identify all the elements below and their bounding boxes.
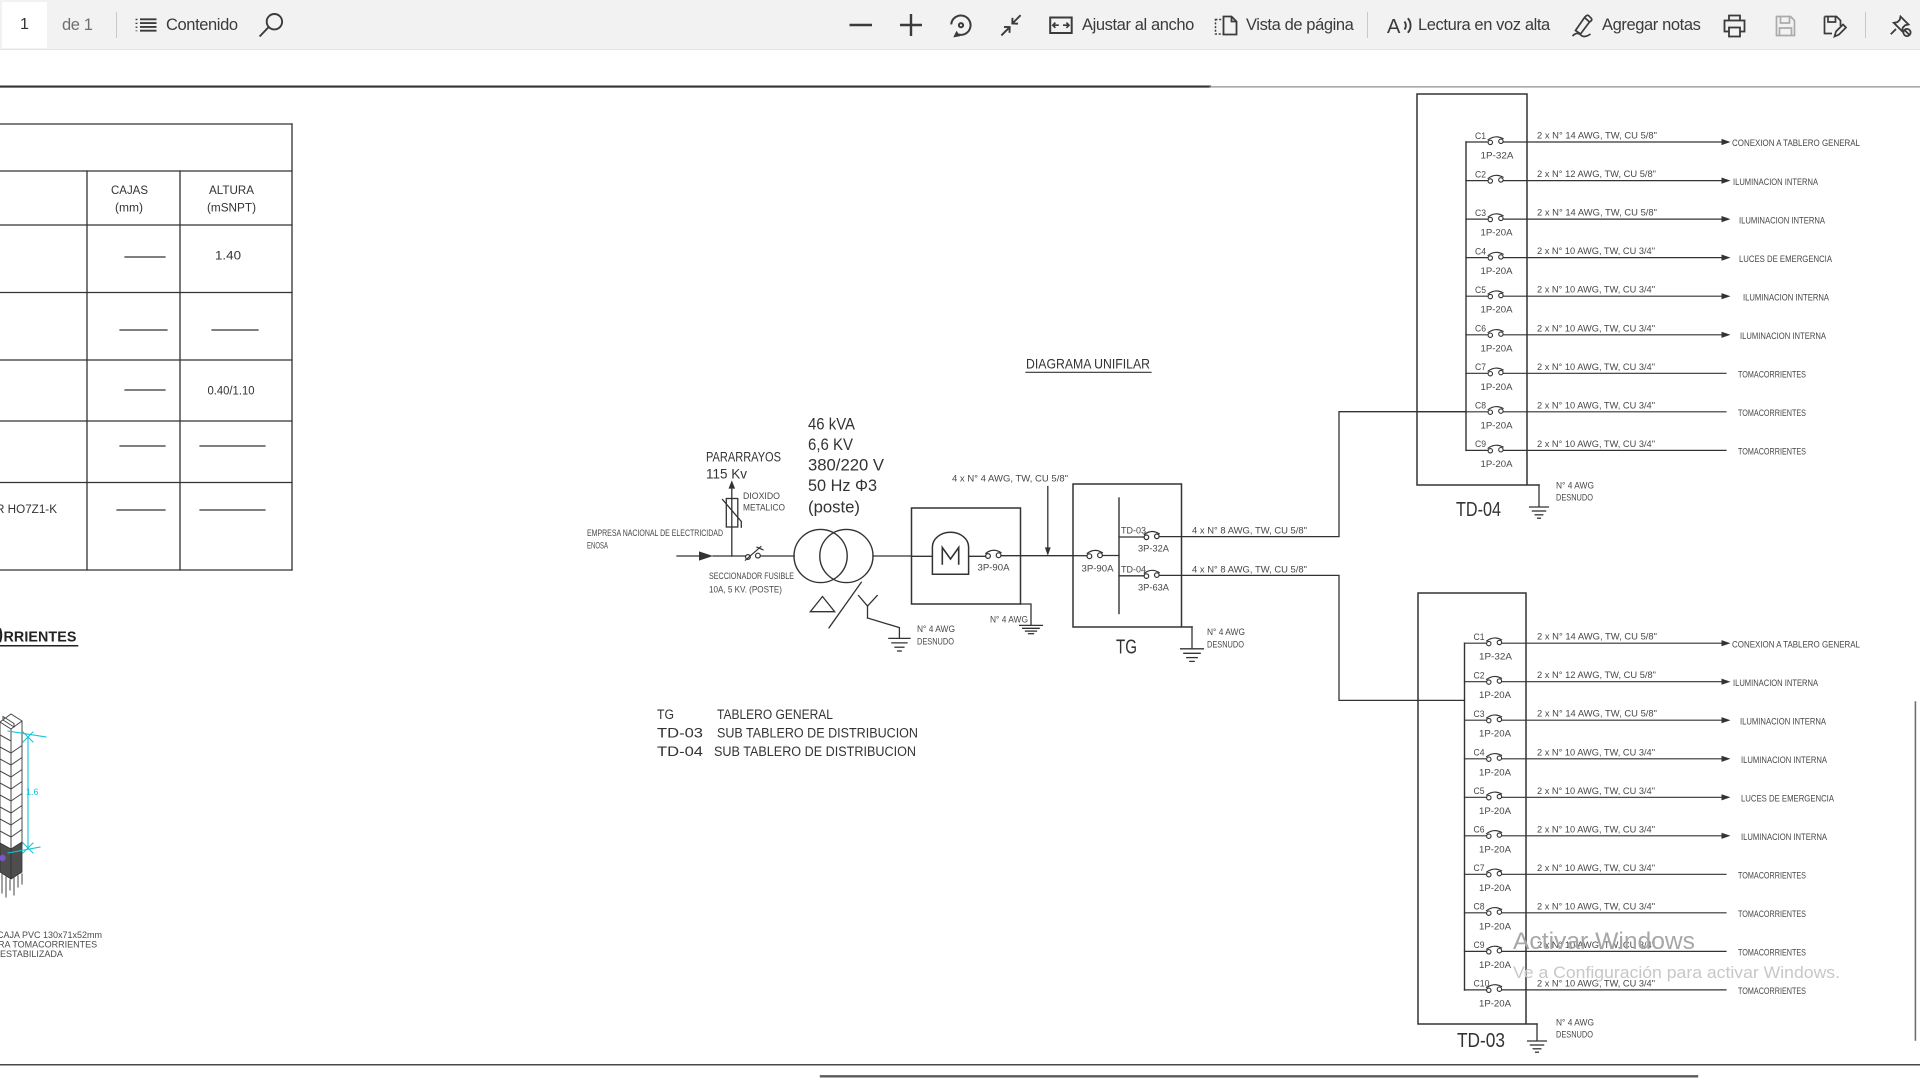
svg-text:(mm): (mm) (115, 203, 143, 215)
svg-text:2 x N° 10 AWG, TW, CU 3/4": 2 x N° 10 AWG, TW, CU 3/4" (1537, 901, 1655, 912)
enclosure: panel TD-03 (1418, 593, 1537, 1024)
svg-text:1P-20A: 1P-20A (1479, 998, 1512, 1009)
service arrow (699, 551, 713, 560)
svg-text:C3: C3 (1474, 709, 1485, 720)
branch circuit C9: breaker 1P-20A (1466, 439, 1806, 470)
wire (969, 555, 986, 557)
legend: TG / TD-03 / TD-04 (657, 707, 918, 759)
svg-text:TG: TG (1116, 637, 1137, 659)
svg-text:1.6: 1.6 (26, 787, 39, 797)
svg-text:3P-90A: 3P-90A (978, 563, 1011, 574)
table dash marks (117, 257, 265, 510)
svg-text:C5: C5 (1475, 285, 1486, 296)
toolbar icon: page view (1214, 15, 1240, 36)
fuse disconnect SECCIONADOR FUSIBLE (745, 547, 763, 561)
svg-text:1P-20A: 1P-20A (1479, 844, 1512, 855)
svg-text:2 x N° 14 AWG, TW, CU 5/8": 2 x N° 14 AWG, TW, CU 5/8" (1537, 208, 1657, 219)
label EMPRESA NACIONAL DE ELECTRICIDAD ENOSA (587, 528, 723, 552)
wire: arrester tap (731, 488, 733, 557)
branch circuit C6: breaker 1P-20A (1465, 824, 1828, 855)
toolbar icon: print (1723, 14, 1746, 38)
wire (912, 555, 933, 557)
wire: TG to TD-04 panel riser (1159, 412, 1466, 537)
branch circuit C7: breaker 1P-20A (1466, 362, 1806, 393)
TG internal bus (1118, 498, 1120, 614)
feeder drop arrow (1045, 487, 1051, 556)
svg-text:2 x N° 10 AWG, TW, CU 3/4": 2 x N° 10 AWG, TW, CU 3/4" (1537, 400, 1655, 411)
svg-text:1P-32A: 1P-32A (1479, 652, 1513, 663)
svg-text:C4: C4 (1474, 748, 1485, 759)
table: equipment schedule (partial, clipped at left) (0, 124, 292, 570)
heading TOMACORRIENTES (clipped) (0, 629, 78, 646)
branch circuit C2: breaker 1P-20A (1465, 670, 1819, 701)
svg-text:2 x N° 14 AWG, TW, CU 5/8": 2 x N° 14 AWG, TW, CU 5/8" (1537, 709, 1657, 720)
svg-text:DESNUDO: DESNUDO (1556, 1030, 1593, 1041)
svg-text:3P-63A: 3P-63A (1138, 583, 1170, 594)
svg-text:C9: C9 (1475, 439, 1486, 450)
svg-text:1.40: 1.40 (215, 251, 241, 263)
svg-text:1P-20A: 1P-20A (1479, 729, 1512, 740)
surge arrester PARARRAYOS (dioxido metalico) (723, 499, 742, 528)
label N4 AWG DESNUDO (TD-03 ground) (1556, 1018, 1594, 1041)
svg-text:1P-20A: 1P-20A (1479, 883, 1512, 894)
svg-text:TD-04: TD-04 (1121, 564, 1146, 575)
toolbar icon: search (256, 12, 284, 39)
svg-text:1P-20A: 1P-20A (1481, 305, 1514, 316)
svg-text:4 x N° 8 AWG, TW, CU 5/8": 4 x N° 8 AWG, TW, CU 5/8" (1192, 526, 1307, 537)
svg-text:PARARRAYOS: PARARRAYOS (706, 450, 781, 465)
svg-text:TD-03: TD-03 (1121, 526, 1146, 537)
svg-text:ENOSA: ENOSA (587, 541, 608, 552)
svg-text:ILUMINACION INTERNA: ILUMINACION INTERNA (1741, 755, 1828, 766)
delta winding symbol (810, 597, 834, 612)
svg-text:C10: C10 (1474, 979, 1490, 990)
table header CAJAS (mm) (0, 185, 256, 516)
wire (1102, 555, 1119, 557)
enclosure: panel TD-04 (1417, 94, 1539, 485)
svg-text:TOMACORRIENTES: TOMACORRIENTES (1738, 909, 1806, 920)
svg-text:C9: C9 (1474, 940, 1485, 951)
svg-text:ILUMINACION INTERNA: ILUMINACION INTERNA (1733, 177, 1819, 188)
label PARARRAYOS 115 Kv (706, 450, 781, 482)
svg-text:C8: C8 (1475, 401, 1486, 412)
toolbar icon: pin (1888, 13, 1912, 38)
svg-text:2 x N° 14 AWG, TW, CU 5/8": 2 x N° 14 AWG, TW, CU 5/8" (1537, 131, 1657, 142)
svg-text:2 x N° 10 AWG, TW, CU 3/4": 2 x N° 10 AWG, TW, CU 3/4" (1537, 747, 1655, 758)
toolbar icon: fit to page (collapse arrows) (1000, 14, 1023, 37)
svg-text:TD-04: TD-04 (1456, 499, 1501, 521)
svg-text:1P-20A: 1P-20A (1481, 266, 1514, 277)
svg-text:1P-20A: 1P-20A (1479, 806, 1512, 817)
svg-text:DESNUDO: DESNUDO (1556, 493, 1593, 504)
breaker TD-04 3P-63A (1119, 564, 1170, 593)
svg-text:3P-90A: 3P-90A (1082, 564, 1115, 575)
enclosure: motor starter box (912, 508, 1021, 604)
svg-text:C6: C6 (1475, 324, 1486, 335)
sheet top frame line (0, 86, 1920, 88)
TD-03 internal bus (1464, 643, 1466, 990)
branch circuit C6: breaker 1P-20A (1466, 323, 1827, 354)
ground: TG (1181, 627, 1204, 661)
label DIOXIDO METALICO (743, 491, 785, 514)
svg-text:TD-03: TD-03 (1457, 1030, 1505, 1052)
svg-text:CAJAS: CAJAS (111, 185, 148, 197)
svg-text:C3: C3 (1475, 208, 1486, 219)
svg-text:50 Hz Φ3: 50 Hz Φ3 (808, 477, 877, 495)
wire (713, 555, 745, 557)
svg-text:2 x N° 12 AWG, TW, CU 5/8": 2 x N° 12 AWG, TW, CU 5/8" (1537, 670, 1656, 681)
svg-text:RRIENTES: RRIENTES (4, 629, 77, 646)
svg-text:N° 4 AWG: N° 4 AWG (1207, 627, 1245, 638)
svg-text:N ESTABILIZADA: N ESTABILIZADA (0, 949, 63, 959)
toolbar icon: zoom in (899, 13, 923, 37)
svg-text:TOMACORRIENTES: TOMACORRIENTES (1738, 408, 1806, 419)
title DIAGRAMA UNIFILAR (1026, 356, 1151, 373)
svg-text:C1: C1 (1475, 131, 1486, 142)
branch circuit C9: breaker 1P-20A (1465, 940, 1807, 971)
svg-text:2 x N° 10 AWG, TW, CU 3/4": 2 x N° 10 AWG, TW, CU 3/4" (1537, 863, 1655, 874)
ground: transformer neutral (889, 638, 910, 651)
svg-text:CONEXION A TABLERO GENERAL: CONEXION A TABLERO GENERAL (1732, 138, 1860, 149)
branch circuit C2: breaker 1P (1466, 169, 1819, 188)
wire: incoming service (677, 555, 700, 557)
wire: neutral to ground (868, 618, 900, 638)
svg-text:C4: C4 (1475, 246, 1486, 257)
wye winding symbol (859, 596, 878, 619)
enclosure: TG box (1073, 484, 1192, 627)
svg-text:ILUMINACION INTERNA: ILUMINACION INTERNA (1741, 832, 1828, 843)
svg-text:DIOXIDO: DIOXIDO (743, 491, 780, 502)
svg-text:1P-20A: 1P-20A (1479, 960, 1512, 971)
svg-text:10A, 5 KV. (POSTE): 10A, 5 KV. (POSTE) (709, 585, 782, 596)
sheet bottom frame line (0, 1064, 1920, 1066)
branch circuit C4: breaker 1P-20A (1466, 246, 1833, 277)
wire: motor box to TG (1001, 555, 1073, 557)
svg-text:TD-04SUB TABLERO DE DISTRIBUCI: TD-04SUB TABLERO DE DISTRIBUCION (657, 744, 916, 759)
svg-text:6,6 KV: 6,6 KV (808, 436, 853, 454)
svg-text:1P-20A: 1P-20A (1479, 921, 1512, 932)
svg-text:ILUMINACION INTERNA: ILUMINACION INTERNA (1733, 678, 1819, 689)
wire (1073, 555, 1087, 557)
wire: transformer to motor enclosure (873, 555, 912, 557)
svg-text:1P-20A: 1P-20A (1479, 767, 1512, 778)
svg-text:1P-20A: 1P-20A (1481, 343, 1514, 354)
svg-text:N° 4 AWG: N° 4 AWG (990, 615, 1028, 626)
svg-text:R HO7Z1-K: R HO7Z1-K (0, 504, 57, 516)
svg-text:C2: C2 (1475, 169, 1486, 180)
svg-text:C2: C2 (1474, 671, 1485, 682)
svg-text:C7: C7 (1475, 362, 1486, 373)
svg-text:METALICO: METALICO (743, 503, 785, 514)
label N4 AWG DESNUDO (transformer ground) (917, 624, 955, 648)
svg-text:46 kVA: 46 kVA (808, 416, 855, 434)
wire (760, 555, 794, 557)
arrester arrowhead (729, 480, 736, 488)
sheet right frame line (1914, 702, 1916, 1040)
svg-text:DESNUDO: DESNUDO (917, 637, 954, 648)
svg-text:LUCES DE EMERGENCIA: LUCES DE EMERGENCIA (1741, 794, 1835, 805)
label N4 AWG DESNUDO (TG ground) (1207, 627, 1245, 651)
toolbar icon: read aloud (1387, 14, 1413, 37)
svg-text:N° 4 AWG: N° 4 AWG (1556, 1018, 1594, 1029)
svg-text:115 Kv: 115 Kv (706, 467, 747, 482)
ground: TD-03 (1528, 1024, 1547, 1052)
svg-text:2 x N° 10 AWG, TW, CU 3/4": 2 x N° 10 AWG, TW, CU 3/4" (1537, 824, 1655, 835)
svg-text:Ve a Configuración para activa: Ve a Configuración para activar Windows. (1513, 963, 1840, 982)
page bottom edge line (821, 1075, 1697, 1077)
svg-text:2 x N° 12 AWG, TW, CU 5/8": 2 x N° 12 AWG, TW, CU 5/8" (1537, 169, 1656, 180)
wire: feeder entry into TD-04 (C8 row) (1417, 411, 1466, 413)
svg-text:380/220 V: 380/220 V (808, 457, 884, 475)
svg-text:ILUMINACION INTERNA: ILUMINACION INTERNA (1739, 215, 1826, 226)
svg-text:C1: C1 (1474, 632, 1485, 643)
svg-text:TOMACORRIENTES: TOMACORRIENTES (1738, 948, 1806, 959)
svg-text:EMPRESA NACIONAL DE ELECTRICID: EMPRESA NACIONAL DE ELECTRICIDAD (587, 528, 723, 539)
branch circuit C3: breaker 1P-20A (1465, 709, 1827, 740)
svg-text:2 x N° 10 AWG, TW, CU 3/4": 2 x N° 10 AWG, TW, CU 3/4" (1537, 439, 1655, 450)
svg-text:4 x N° 4 AWG, TW, CU 5/8": 4 x N° 4 AWG, TW, CU 5/8" (952, 474, 1068, 485)
transformer T1 (794, 529, 873, 582)
branch circuit C1: breaker 1P-32A (1466, 131, 1860, 162)
branch circuit C1: breaker 1P-32A (1465, 632, 1861, 663)
branch circuit C5: breaker 1P-20A (1465, 786, 1835, 817)
caption: caja pvc (clipped) (0, 930, 102, 959)
toolbar icon: save (disabled) (1775, 15, 1796, 37)
svg-text:C5: C5 (1474, 786, 1485, 797)
ground: TD-04 (1530, 485, 1549, 518)
svg-text:3P-32A: 3P-32A (1138, 544, 1170, 555)
svg-text:ILUMINACION INTERNA: ILUMINACION INTERNA (1740, 331, 1827, 342)
toolbar icon: add notes pen (1570, 13, 1595, 38)
svg-text:ILUMINACION INTERNA: ILUMINACION INTERNA (1740, 716, 1827, 727)
svg-text:1P-20A: 1P-20A (1479, 690, 1512, 701)
branch circuit C8: breaker 1P-20A (1465, 901, 1807, 932)
svg-text:4 x N° 8 AWG, TW, CU 5/8": 4 x N° 8 AWG, TW, CU 5/8" (1192, 565, 1307, 576)
svg-text:N° 4 AWG: N° 4 AWG (917, 624, 955, 635)
svg-text:C7: C7 (1474, 863, 1485, 874)
branch circuit C5: breaker 1P-20A (1466, 285, 1830, 316)
svg-text:TOMACORRIENTES: TOMACORRIENTES (1738, 370, 1806, 381)
svg-text:TOMACORRIENTES: TOMACORRIENTES (1738, 871, 1806, 882)
svg-text:DESNUDO: DESNUDO (1207, 640, 1244, 651)
svg-text:TGTABLERO GENERAL: TGTABLERO GENERAL (657, 707, 833, 722)
svg-text:2 x N° 10 AWG, TW, CU 3/4": 2 x N° 10 AWG, TW, CU 3/4" (1537, 362, 1655, 373)
breaker TD-03 3P-32A (1119, 526, 1170, 555)
svg-text:1P-32A: 1P-32A (1481, 151, 1515, 162)
branch circuit C4: breaker 1P-20A (1465, 747, 1828, 778)
TD-04 internal bus (1465, 142, 1467, 450)
svg-text:N° 4 AWG: N° 4 AWG (1556, 481, 1594, 492)
svg-text:DIAGRAMA UNIFILAR: DIAGRAMA UNIFILAR (1026, 356, 1150, 372)
toolbar icon: save as (1823, 15, 1847, 38)
svg-text:TOMACORRIENTES: TOMACORRIENTES (1738, 447, 1806, 458)
breaker 3P-90A (motor) (986, 550, 1001, 558)
breaker 3P-90A (TG main) (1087, 550, 1102, 558)
svg-text:TOMACORRIENTES: TOMACORRIENTES (1738, 986, 1806, 997)
branch circuit C10: breaker 1P-20A (1465, 978, 1807, 1009)
label SECCIONADOR FUSIBLE 10A 5KV (709, 571, 794, 596)
toolbar icon: contents list (134, 13, 158, 35)
svg-text:ILUMINACION INTERNA: ILUMINACION INTERNA (1743, 292, 1830, 303)
svg-text:(poste): (poste) (808, 499, 860, 517)
svg-text:2 x N° 10 AWG, TW, CU 3/4": 2 x N° 10 AWG, TW, CU 3/4" (1537, 323, 1655, 334)
svg-text:(mSNPT): (mSNPT) (207, 203, 256, 215)
svg-text:CONEXION A TABLERO GENERAL: CONEXION A TABLERO GENERAL (1732, 639, 1860, 650)
winding slash (829, 582, 861, 628)
svg-text:CAJA PVC 130x71x52mm: CAJA PVC 130x71x52mm (0, 930, 102, 940)
svg-text:0.40/1.10: 0.40/1.10 (208, 386, 255, 398)
wire: TG to TD-03 panel drop (1159, 575, 1464, 700)
detail: isometric masonry pole with PVC box (0, 714, 102, 959)
svg-text:2 x N° 10 AWG, TW, CU 3/4": 2 x N° 10 AWG, TW, CU 3/4" (1537, 246, 1655, 257)
label N4 AWG DESNUDO (TD-04 ground) (1556, 481, 1594, 504)
transformer data label (808, 416, 884, 517)
svg-text:SECCIONADOR FUSIBLE: SECCIONADOR FUSIBLE (709, 571, 794, 582)
watermark: activar windows (1513, 928, 1840, 982)
toolbar icon: rotate (950, 14, 974, 38)
svg-text:1P-20A: 1P-20A (1481, 459, 1514, 470)
svg-text:ALTURA: ALTURA (209, 185, 254, 197)
svg-text:1P-20A: 1P-20A (1481, 420, 1514, 431)
svg-text:ARA TOMACORRIENTES: ARA TOMACORRIENTES (0, 940, 97, 950)
svg-text:C8: C8 (1474, 902, 1485, 913)
branch circuit C3: breaker 1P-20A (1466, 208, 1826, 239)
motor M1 (932, 532, 968, 574)
svg-text:LUCES DE EMERGENCIA: LUCES DE EMERGENCIA (1739, 254, 1833, 265)
svg-text:Activar Windows: Activar Windows (1513, 928, 1695, 955)
branch circuit C7: breaker 1P-20A (1465, 863, 1807, 894)
ground: motor box (1020, 604, 1043, 634)
toolbar icon: fit width (1049, 16, 1073, 35)
svg-text:2 x N° 14 AWG, TW, CU 5/8": 2 x N° 14 AWG, TW, CU 5/8" (1537, 632, 1657, 643)
svg-text:TD-03SUB TABLERO DE DISTRIBUCI: TD-03SUB TABLERO DE DISTRIBUCION (657, 726, 918, 741)
svg-text:2 x N° 10 AWG, TW, CU 3/4": 2 x N° 10 AWG, TW, CU 3/4" (1537, 786, 1655, 797)
svg-text:1P-20A: 1P-20A (1481, 382, 1514, 393)
svg-text:1P-20A: 1P-20A (1481, 228, 1514, 239)
dimension line (cyan) (8, 731, 46, 853)
svg-text:2 x N° 10 AWG, TW, CU 3/4": 2 x N° 10 AWG, TW, CU 3/4" (1537, 285, 1655, 296)
branch circuit C8: breaker 1P-20A (1466, 400, 1806, 431)
svg-text:C6: C6 (1474, 825, 1485, 836)
toolbar icon: zoom out (849, 23, 873, 27)
